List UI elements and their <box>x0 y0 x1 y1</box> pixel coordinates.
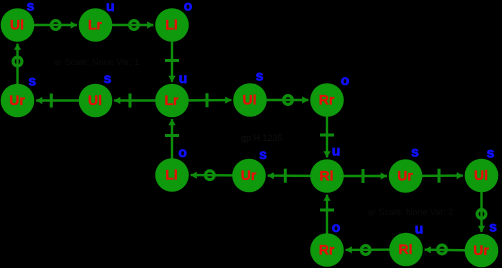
svg-text:Rl: Rl <box>320 168 334 184</box>
wire n11-n10 (tick edge) <box>268 169 327 183</box>
svg-text:u: u <box>332 143 341 159</box>
wire n2-n3 (ring edge) <box>96 21 154 30</box>
svg-text:Ul: Ul <box>10 17 24 33</box>
wire n10-n9 (ring edge) <box>191 171 249 180</box>
node Rl (n15) <box>389 233 423 267</box>
svg-text:o: o <box>332 219 341 235</box>
svg-text:a¹ Scale: None Var: 1: a¹ Scale: None Var: 1 <box>54 57 139 67</box>
svg-text:Ur: Ur <box>473 242 489 258</box>
wire n1-n2 (ring edge) <box>18 21 77 30</box>
wire n8-n11 (tick edge) <box>320 100 334 157</box>
svg-text:o: o <box>341 72 350 88</box>
wire n14-n11 (tick edge) <box>320 195 334 250</box>
wire n11-n12 (tick edge) <box>327 169 387 183</box>
svg-text:Lr: Lr <box>88 17 103 33</box>
node Rr (n8) <box>310 83 344 117</box>
svg-text:a¹ Scale: None Var: 2: a¹ Scale: None Var: 2 <box>368 207 453 217</box>
wire n16-n15 (ring edge) <box>425 245 482 254</box>
svg-text:s: s <box>487 145 495 161</box>
svg-text:Ul: Ul <box>88 92 102 108</box>
wire n6-n5 (tick edge) <box>114 94 172 108</box>
svg-text:s: s <box>256 68 264 84</box>
node Ll (n9) <box>155 158 189 192</box>
node Ur (n4) <box>1 84 35 118</box>
svg-text:gp H 1235: gp H 1235 <box>241 133 283 143</box>
svg-text:s: s <box>104 70 112 86</box>
wire n13-n16 (ring edge) <box>477 176 486 232</box>
svg-text:Rl: Rl <box>399 241 413 257</box>
wire n7-n8 (ring edge) <box>250 96 308 105</box>
svg-text:s: s <box>411 144 419 160</box>
svg-text:u: u <box>106 0 115 14</box>
svg-text:s: s <box>28 73 36 89</box>
svg-text:Lr: Lr <box>165 92 180 108</box>
svg-text:o: o <box>184 0 193 14</box>
node Rl (n11) <box>310 159 344 193</box>
svg-text:Rr: Rr <box>319 242 335 258</box>
node Lr (n2) <box>79 8 113 42</box>
wire n6-n7 (tick edge) <box>172 93 231 107</box>
svg-text:Ur: Ur <box>397 168 413 184</box>
svg-text:s: s <box>27 0 35 14</box>
node Ur (n16) <box>465 234 499 268</box>
wire n5-n4 (tick edge) <box>36 94 95 108</box>
node Rr (n14) <box>310 233 344 267</box>
node Ul (n5) <box>79 84 113 118</box>
svg-text:o: o <box>178 144 187 160</box>
svg-text:Ul: Ul <box>243 92 257 108</box>
svg-text:u: u <box>179 70 188 86</box>
wire n15-n14 (ring edge) <box>346 246 406 255</box>
svg-text:Rr: Rr <box>319 92 335 108</box>
svg-text:u: u <box>415 221 424 237</box>
wire n12-n13 (tick edge) <box>406 169 463 183</box>
svg-text:Ll: Ll <box>165 167 177 183</box>
node Ul (n7) <box>233 83 267 117</box>
wire n3-n6 (tick edge) <box>165 25 179 82</box>
node Lr (n6) <box>155 84 189 118</box>
svg-text:s: s <box>259 146 267 162</box>
svg-text:Ur: Ur <box>241 167 257 183</box>
svg-text:Ur: Ur <box>9 92 25 108</box>
wire n4-n1 (ring edge) <box>13 44 22 101</box>
svg-text:Ul: Ul <box>474 167 488 183</box>
node Ur (n12) <box>389 159 423 193</box>
svg-text:s: s <box>489 219 497 235</box>
node Ul (n1) <box>1 8 35 42</box>
svg-text:Ll: Ll <box>165 17 177 33</box>
node Ur (n10) <box>232 159 266 193</box>
node Ul (n13) <box>465 159 499 193</box>
node Ll (n3) <box>155 8 189 42</box>
wire n9-n6 (tick edge) <box>165 119 179 175</box>
